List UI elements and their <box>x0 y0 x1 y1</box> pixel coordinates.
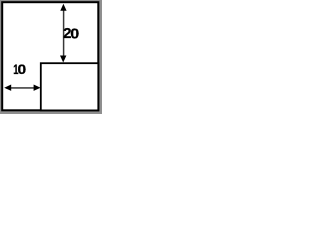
arrowhead right <box>34 85 41 91</box>
label 20 <box>63 25 79 42</box>
arrowhead left <box>4 85 11 91</box>
svg-text:0: 0 <box>70 26 79 42</box>
box (rectangle, bottom-right) <box>41 63 99 110</box>
svg-text:0: 0 <box>18 63 27 78</box>
arrowhead down <box>60 56 66 63</box>
gray page background <box>0 0 102 114</box>
arrowhead up <box>60 4 66 11</box>
outer frame: white canvas with black border <box>2 2 98 110</box>
label 10 <box>13 63 26 78</box>
wire: vertical dimension line <box>63 6 65 60</box>
wire: horizontal dimension line <box>6 87 38 89</box>
